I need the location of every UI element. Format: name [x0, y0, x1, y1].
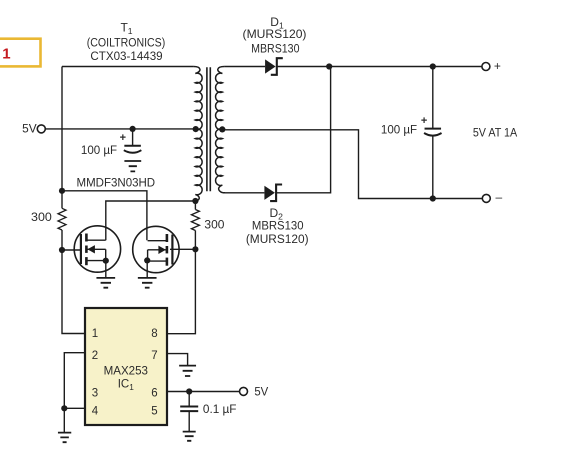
ground pin7 [179, 366, 196, 376]
wire D2 cathode up [277, 67, 331, 193]
svg-text:MBRS130: MBRS130 [251, 43, 299, 56]
wire drain cross A [62, 191, 147, 240]
svg-text:–: – [495, 190, 502, 204]
svg-text:(MURS120): (MURS120) [243, 27, 307, 41]
wire pin2 stub [64, 353, 85, 409]
node pins 2-4 junction [61, 405, 67, 411]
wire pin6 stub [167, 391, 240, 393]
svg-text:7: 7 [151, 350, 157, 362]
wire secondary top [224, 66, 265, 68]
node diode cathodes junction [326, 63, 332, 69]
wire left mosfet gate lead [62, 249, 81, 251]
transformer T1 secondary winding [216, 67, 225, 193]
node primary center tap [193, 126, 199, 132]
wire cap3 bottom lead [188, 411, 190, 432]
wire left rail lower [61, 191, 63, 209]
transformer T1 primary winding [194, 67, 203, 202]
node pin6 cap junction [186, 388, 192, 394]
diode D1 [265, 59, 276, 73]
node right gate junction [192, 246, 198, 252]
wire right mosfet gate lead [170, 248, 195, 250]
wire right mosfet source lead [146, 260, 148, 277]
ground right mosfet source [138, 278, 157, 288]
capacitor C3 0.1uF [180, 407, 198, 412]
wire pin7 stub [167, 354, 188, 366]
ground left mosfet source [96, 278, 115, 288]
svg-text:+: + [494, 59, 501, 73]
svg-text:(MURS120): (MURS120) [246, 232, 309, 246]
node primary bottom junction [192, 198, 198, 204]
wire left rail to gate [61, 230, 63, 250]
ground below C1 [124, 161, 141, 171]
svg-text:5V AT 1A: 5V AT 1A [473, 127, 518, 140]
svg-text:+: + [421, 115, 427, 127]
svg-text:8: 8 [151, 328, 157, 340]
node left mosfet source-body [103, 258, 109, 264]
wire D2 line [223, 192, 264, 194]
node left gate junction [59, 247, 65, 253]
svg-text:MBRS130: MBRS130 [252, 219, 304, 232]
svg-text:1: 1 [2, 45, 10, 62]
svg-text:1: 1 [92, 328, 98, 340]
svg-text:2: 2 [92, 350, 98, 362]
node secondary center tap [219, 126, 225, 132]
transformer T1 core [207, 67, 210, 191]
ground below C3 [183, 432, 196, 441]
wire right rail mid [194, 231, 196, 250]
capacitor C2 100uF output [424, 129, 442, 136]
node output cap top [430, 63, 436, 69]
ground pins 2-4 [58, 433, 71, 443]
wire cap2 top lead [432, 67, 434, 129]
resistor R2 300 right [191, 210, 199, 231]
wire cap2 bottom lead [432, 136, 434, 199]
svg-text:3: 3 [92, 388, 98, 400]
node output cap bottom [430, 195, 436, 201]
node output minus terminal [482, 194, 490, 202]
svg-text:6: 6 [151, 388, 157, 400]
wire 5V line [45, 128, 197, 130]
wire drain cross B [106, 201, 196, 240]
wire top rail [62, 66, 194, 68]
svg-text:100 µF: 100 µF [81, 144, 117, 157]
svg-text:5V: 5V [22, 122, 37, 136]
node left rail drain junction [59, 188, 65, 194]
wire left mosfet source lead [105, 261, 107, 278]
resistor R1 300 left [58, 208, 66, 230]
svg-text:5: 5 [151, 406, 157, 418]
svg-text:4: 4 [92, 406, 99, 418]
node right mosfet source-body [144, 257, 150, 263]
svg-text:CTX03-14439: CTX03-14439 [90, 49, 162, 63]
svg-text:300: 300 [204, 217, 224, 231]
svg-text:+: + [120, 132, 126, 144]
diode D2 [264, 186, 275, 200]
node 5V input terminal [37, 125, 45, 133]
node output plus terminal [482, 63, 490, 71]
wire right rail to pin8 [167, 249, 195, 334]
node pin6 5V terminal [240, 387, 248, 395]
transistor Q2 right MMDF3N03HD half [133, 226, 179, 272]
wire right rail top [194, 201, 196, 210]
op-amp U1 MAX253 IC body [85, 308, 167, 425]
svg-text:MAX253: MAX253 [104, 364, 149, 377]
svg-text:300: 300 [31, 210, 52, 224]
figure number box [0, 39, 41, 67]
svg-text:0.1 µF: 0.1 µF [203, 402, 237, 416]
capacitor C1 100uF input [124, 146, 142, 153]
svg-text:MMDF3N03HD: MMDF3N03HD [76, 176, 155, 189]
wire center return [222, 130, 482, 199]
wire cap1 lead [132, 129, 134, 146]
svg-text:5V: 5V [254, 385, 268, 398]
wire left rail [61, 67, 63, 191]
transistor Q1 left MMDF3N03HD half [74, 226, 120, 272]
wire D1 cathode to junction [277, 66, 482, 68]
svg-text:100 µF: 100 µF [381, 123, 417, 136]
node cap1 junction [130, 126, 136, 132]
wire left rail to pin1 [62, 250, 85, 334]
wire cap3 top lead [188, 392, 190, 407]
wire pin4 stub [64, 408, 85, 432]
